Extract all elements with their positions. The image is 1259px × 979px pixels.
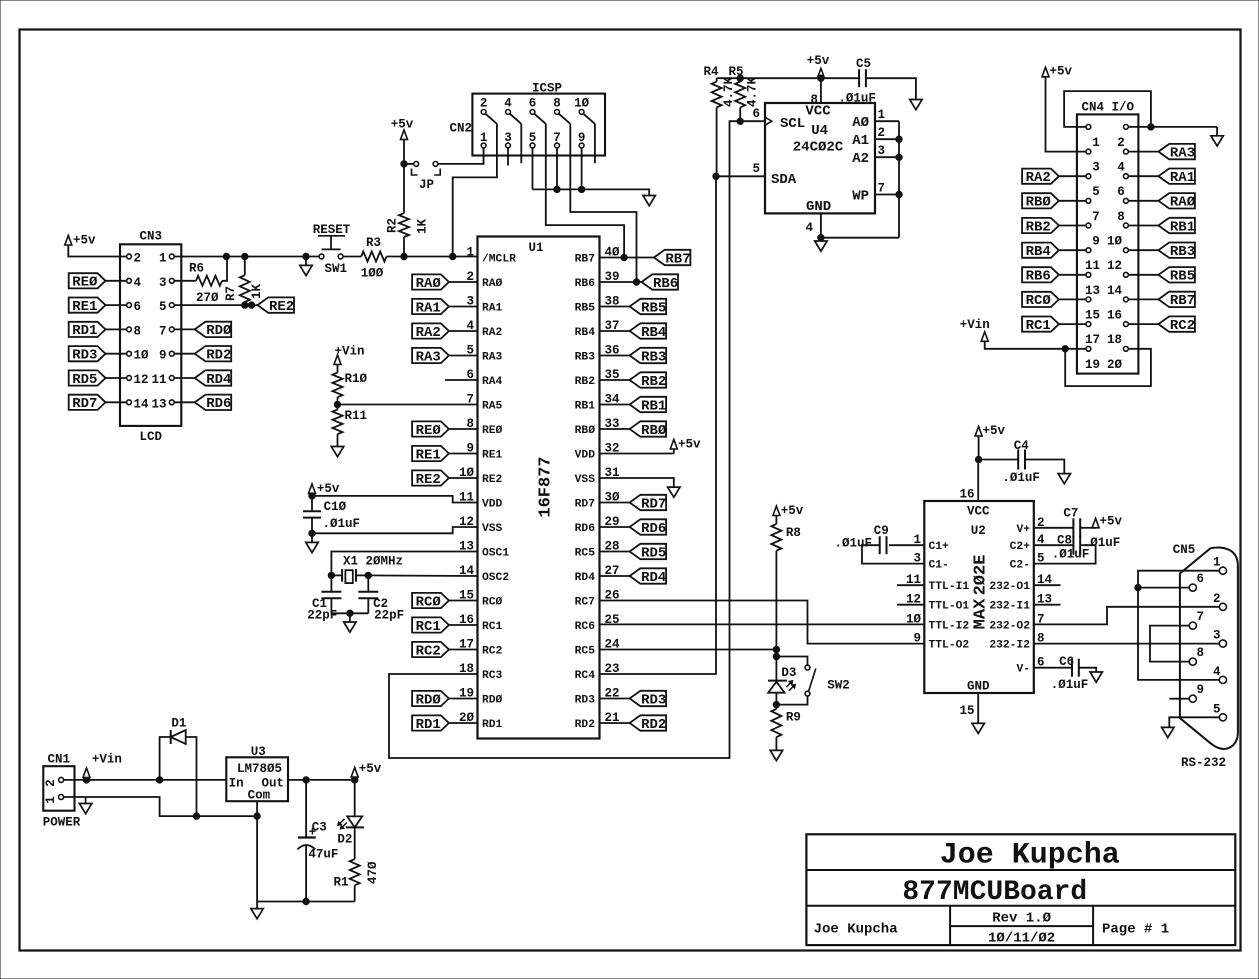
junction VDD bbox=[309, 493, 315, 499]
ground below crystal bbox=[344, 622, 356, 632]
CN1 pin circles and numbers bbox=[59, 777, 64, 782]
CN2 pin circles and numbers bbox=[480, 97, 590, 148]
wire R2 to MCLR wire bbox=[403, 237, 405, 257]
wire R8 down to LED branch bbox=[775, 551, 777, 681]
junction U3 Com bbox=[254, 813, 260, 819]
svg-text:+Vin: +Vin bbox=[92, 753, 122, 767]
net labels into CN4 left bbox=[1022, 169, 1086, 334]
capacitor C7 .01uF on V+ bbox=[1034, 527, 1073, 529]
svg-text:12: 12 bbox=[1107, 259, 1122, 273]
svg-text:LCD: LCD bbox=[139, 430, 162, 444]
svg-text:TTL-I1: TTL-I1 bbox=[929, 581, 970, 593]
wire R9 to ground bbox=[775, 737, 777, 750]
svg-text:RE2: RE2 bbox=[269, 299, 294, 315]
ground right of C4 bbox=[1058, 474, 1070, 484]
svg-text:2: 2 bbox=[1117, 136, 1125, 150]
svg-text:1: 1 bbox=[1213, 556, 1221, 570]
svg-text:15: 15 bbox=[959, 704, 974, 718]
ground below U3 Com bbox=[251, 909, 263, 919]
svg-text:REØ: REØ bbox=[72, 275, 98, 291]
svg-text:V-: V- bbox=[1016, 664, 1030, 676]
switch SW2 branch bbox=[776, 657, 807, 666]
svg-text:27Ø: 27Ø bbox=[196, 291, 219, 305]
capacitor C9 .01uF bbox=[889, 544, 924, 546]
svg-text:R4: R4 bbox=[703, 65, 719, 79]
jumper JP bbox=[404, 163, 414, 165]
CN5 pin circles and numbers bbox=[1189, 556, 1226, 721]
svg-text:.Ø1uF: .Ø1uF bbox=[1051, 678, 1089, 692]
svg-text:GND: GND bbox=[806, 199, 831, 215]
svg-text:MAX: MAX bbox=[972, 598, 991, 629]
svg-text:CN1: CN1 bbox=[48, 753, 71, 767]
wire SCL into U4 pin 6 bbox=[730, 120, 766, 122]
svg-text:RA3: RA3 bbox=[482, 352, 503, 364]
wire U3 Out to +5v bbox=[288, 779, 355, 781]
title block frame bbox=[806, 834, 1235, 945]
connector CN2 ICSP body bbox=[472, 94, 605, 156]
svg-text:2: 2 bbox=[134, 252, 142, 266]
svg-text:JP: JP bbox=[419, 178, 434, 192]
regulator U3 LM7805 body bbox=[226, 757, 288, 801]
svg-text:18: 18 bbox=[1107, 333, 1122, 347]
ground at SW1 left bbox=[305, 257, 307, 266]
svg-text:RC4: RC4 bbox=[575, 670, 596, 682]
svg-text:9: 9 bbox=[578, 131, 586, 145]
svg-text:RD2: RD2 bbox=[206, 348, 231, 364]
svg-text:47uF: 47uF bbox=[308, 848, 338, 862]
junction RC5 wire bbox=[773, 646, 779, 652]
wire U2 232-O2 to CN5 pin 2 bbox=[1034, 607, 1220, 625]
svg-text:Page # 1: Page # 1 bbox=[1102, 922, 1169, 938]
svg-text:1: 1 bbox=[159, 252, 167, 266]
svg-text:14: 14 bbox=[1107, 284, 1123, 298]
U2 pin names and numbers bbox=[906, 516, 1053, 676]
svg-text:VDD: VDD bbox=[575, 450, 596, 462]
svg-text:1: 1 bbox=[44, 796, 58, 804]
capacitor C2 22pF bbox=[367, 575, 369, 592]
svg-text:.Ø1uF: .Ø1uF bbox=[834, 537, 872, 551]
svg-text:232-O1: 232-O1 bbox=[989, 581, 1030, 593]
svg-text:RE1: RE1 bbox=[416, 447, 441, 463]
svg-text:RB3: RB3 bbox=[641, 349, 666, 365]
svg-text:C1-: C1- bbox=[929, 560, 949, 572]
resistor R5 4.7K bbox=[739, 78, 741, 81]
svg-text:2: 2 bbox=[44, 779, 58, 787]
connector CN3 body bbox=[120, 244, 181, 426]
+5v symbol above U2 bbox=[978, 436, 980, 460]
svg-text:VSS: VSS bbox=[482, 523, 503, 535]
ground rail of power section bbox=[257, 901, 355, 903]
svg-text:VCC: VCC bbox=[805, 104, 831, 120]
svg-text:RC5: RC5 bbox=[575, 646, 596, 658]
svg-text:RE2: RE2 bbox=[482, 474, 503, 486]
svg-text:+5v: +5v bbox=[1100, 515, 1123, 529]
+5v symbol to CN3 pin 2 bbox=[68, 245, 126, 257]
svg-text:REØ: REØ bbox=[416, 423, 442, 439]
svg-text:ICSP: ICSP bbox=[532, 82, 562, 96]
svg-text:RC3: RC3 bbox=[482, 670, 503, 682]
svg-text:RC2: RC2 bbox=[482, 646, 503, 658]
wire CN3 pin1 to SW1 bbox=[174, 256, 319, 258]
svg-text:14: 14 bbox=[134, 397, 150, 411]
svg-text:8: 8 bbox=[553, 97, 561, 111]
svg-text:RDØ: RDØ bbox=[206, 323, 232, 339]
wire CN5 pins 1-6-4 tie bbox=[1138, 571, 1219, 680]
wire U3 Com to ground rail bbox=[256, 801, 258, 901]
ground below C10 bbox=[311, 533, 313, 542]
svg-text:X1 2ØMHz: X1 2ØMHz bbox=[343, 555, 403, 569]
svg-text:WP: WP bbox=[852, 189, 869, 205]
svg-text:17: 17 bbox=[1085, 333, 1100, 347]
wire CN3 pin5 to RE2 bbox=[174, 304, 257, 306]
svg-text:2Ø2E: 2Ø2E bbox=[972, 555, 991, 596]
svg-text:RB3: RB3 bbox=[1170, 244, 1195, 260]
svg-text:232-O2: 232-O2 bbox=[989, 620, 1030, 632]
resistor R10 bbox=[333, 373, 343, 398]
svg-text:1: 1 bbox=[1092, 136, 1100, 150]
wire ICSP pin4 stub bbox=[520, 124, 522, 163]
svg-text:7: 7 bbox=[1092, 210, 1100, 224]
svg-text:RA2: RA2 bbox=[1026, 170, 1051, 186]
ground below U4 bbox=[820, 238, 822, 241]
svg-text:RB7: RB7 bbox=[1170, 293, 1195, 309]
svg-text:RB1: RB1 bbox=[575, 401, 596, 413]
resistor R11 bbox=[333, 410, 343, 435]
connector CN4 body bbox=[1077, 114, 1139, 373]
svg-text:1Ø/11/Ø2: 1Ø/11/Ø2 bbox=[988, 931, 1055, 947]
svg-text:RAØ: RAØ bbox=[1170, 195, 1196, 211]
svg-text:7: 7 bbox=[1197, 610, 1205, 624]
wire U1 pin 18 RC3 to SCL loop bbox=[389, 120, 730, 758]
svg-text:Com: Com bbox=[248, 789, 271, 803]
svg-text:RD3: RD3 bbox=[72, 348, 97, 364]
resistor R1 470 bbox=[350, 859, 360, 885]
wire to U1 pin 12 VSS bbox=[312, 527, 478, 533]
junction JP tap bbox=[401, 161, 407, 167]
svg-text:9: 9 bbox=[159, 349, 167, 363]
microcontroller U1 16F877 body bbox=[478, 237, 600, 739]
junction +Vin loop bbox=[1062, 346, 1068, 352]
wire +5v to R8 bbox=[775, 516, 777, 525]
wire U4 pin 4 GND bbox=[821, 213, 899, 237]
crystal X1 20MHz bbox=[331, 574, 342, 576]
svg-text:RCØ: RCØ bbox=[482, 597, 503, 609]
svg-text:8: 8 bbox=[1117, 210, 1125, 224]
svg-text:9: 9 bbox=[1197, 683, 1205, 697]
svg-text:V+: V+ bbox=[1016, 524, 1030, 536]
svg-text:OSC1: OSC1 bbox=[482, 548, 509, 560]
svg-text:POWER: POWER bbox=[43, 816, 81, 830]
svg-text:232-I1: 232-I1 bbox=[989, 601, 1030, 613]
svg-text:LM78Ø5: LM78Ø5 bbox=[237, 762, 282, 776]
svg-text:+5v: +5v bbox=[781, 504, 804, 518]
svg-text:RB6: RB6 bbox=[653, 276, 678, 292]
svg-text:SW2: SW2 bbox=[827, 679, 850, 693]
wire R1 to ground rail bbox=[354, 885, 356, 901]
svg-text:RB4: RB4 bbox=[641, 325, 666, 341]
wire CN1 pin2 to U3 In bbox=[64, 779, 227, 781]
svg-text:C6: C6 bbox=[1059, 655, 1074, 669]
wire +Vin to R10 bbox=[337, 365, 339, 373]
svg-text:1ØØ: 1ØØ bbox=[361, 267, 384, 281]
svg-text:RC6: RC6 bbox=[575, 621, 596, 633]
svg-text:22pF: 22pF bbox=[307, 609, 337, 623]
capacitor C5 .01uF bbox=[858, 69, 860, 87]
svg-text:RC1: RC1 bbox=[482, 621, 503, 633]
svg-text:RD5: RD5 bbox=[72, 372, 97, 388]
junction crystal right bbox=[365, 572, 371, 578]
+5v symbol above U4 bbox=[817, 68, 824, 78]
+5v symbol to CN4 pin 3 bbox=[1042, 67, 1049, 77]
pushbutton SW1 bbox=[319, 254, 324, 259]
svg-text:11: 11 bbox=[151, 373, 166, 387]
net labels RA0-RA3, RE0-RE2, RC0-RC2, RD0, RD1 into U1 bbox=[412, 274, 477, 732]
svg-text:+5v: +5v bbox=[983, 424, 1006, 438]
diode D1 bbox=[160, 737, 171, 780]
ground below R11 bbox=[331, 447, 343, 457]
junction C3 top bbox=[303, 777, 309, 783]
svg-text:6: 6 bbox=[1117, 185, 1125, 199]
+5v symbol above R2 bbox=[401, 130, 408, 140]
svg-text:A2: A2 bbox=[852, 151, 869, 167]
svg-text:A1: A1 bbox=[852, 133, 869, 149]
wire U1 pin 14 OSC2 bbox=[368, 574, 477, 577]
+5v symbol at U1 pin 32 bbox=[600, 453, 674, 455]
wire R5 to SCL bbox=[739, 107, 741, 121]
svg-text:11: 11 bbox=[1085, 259, 1100, 273]
svg-text:.Ø1uF: .Ø1uF bbox=[1002, 471, 1040, 485]
U1 pin 6 stub bbox=[445, 379, 478, 381]
net labels RD0,RD2,RD4,RD6 from CN3 bbox=[174, 322, 232, 412]
resistor R9 bbox=[771, 709, 781, 737]
svg-text:7: 7 bbox=[553, 131, 561, 145]
resistor R3 100 bbox=[361, 252, 386, 262]
svg-text:RB4: RB4 bbox=[1026, 244, 1051, 260]
U2 pin 16 VCC bbox=[977, 460, 979, 502]
wire U2 232-I2 to CN5 pin 3 bbox=[1034, 643, 1220, 645]
svg-text:Joe Kupcha: Joe Kupcha bbox=[814, 922, 899, 938]
svg-text:RD7: RD7 bbox=[641, 496, 666, 512]
svg-text:2: 2 bbox=[878, 126, 886, 140]
svg-text:VCC: VCC bbox=[967, 505, 990, 519]
svg-text:RD6: RD6 bbox=[575, 523, 596, 535]
svg-text:AØ: AØ bbox=[852, 115, 869, 131]
svg-text:VDD: VDD bbox=[482, 499, 503, 511]
svg-text:RA1: RA1 bbox=[416, 300, 441, 316]
junction R7 bottom bbox=[242, 302, 248, 308]
svg-text:RD2: RD2 bbox=[575, 719, 596, 731]
svg-text:4: 4 bbox=[134, 276, 142, 290]
svg-text:RCØ: RCØ bbox=[1026, 293, 1052, 309]
svg-text:RB2: RB2 bbox=[1026, 219, 1051, 235]
wire U1 pin 13 OSC1 bbox=[331, 552, 477, 576]
wire CN5 pins 7-8 tie bbox=[1150, 626, 1189, 662]
+5v rail above U4 bbox=[717, 77, 859, 79]
svg-text:8: 8 bbox=[810, 93, 818, 107]
svg-text:232-I2: 232-I2 bbox=[989, 640, 1030, 652]
svg-text:SCL: SCL bbox=[780, 116, 805, 132]
svg-text:24CØ2C: 24CØ2C bbox=[793, 140, 844, 156]
svg-text:R11: R11 bbox=[345, 409, 368, 423]
CN3 pin circles and numbers bbox=[127, 252, 175, 412]
svg-text:RS-232: RS-232 bbox=[1181, 756, 1226, 770]
svg-text:3: 3 bbox=[1213, 629, 1221, 643]
svg-text:.Ø1uF: .Ø1uF bbox=[323, 517, 361, 531]
svg-text:R5: R5 bbox=[728, 65, 743, 79]
wire oscillator ground rail bbox=[331, 612, 368, 614]
svg-text:6: 6 bbox=[752, 107, 760, 121]
wire U1 pin 23 RC4 to SDA bus bbox=[600, 176, 717, 674]
svg-text:RDØ: RDØ bbox=[482, 695, 503, 707]
wire SDA into U4 pin 5 bbox=[716, 175, 765, 177]
ground at CN4 pin 2 bbox=[1211, 136, 1223, 146]
svg-text:RB7: RB7 bbox=[665, 251, 690, 267]
junction RB6/ICSP bbox=[633, 279, 639, 285]
svg-text:1Ø: 1Ø bbox=[134, 349, 150, 363]
junction +Vin bbox=[83, 777, 89, 783]
svg-text:In: In bbox=[229, 777, 244, 791]
svg-text:19: 19 bbox=[1085, 358, 1100, 372]
svg-text:RESET: RESET bbox=[313, 223, 351, 237]
wire CN1 pin1 ground net bbox=[64, 797, 258, 816]
junction R7 top bbox=[242, 253, 248, 259]
svg-text:1: 1 bbox=[878, 108, 886, 122]
svg-text:C1+: C1+ bbox=[929, 541, 950, 553]
wire U1 pin 25 RC6 to U2 TTL-I2 bbox=[600, 623, 925, 625]
svg-text:RA3: RA3 bbox=[416, 349, 441, 365]
svg-text:4.7K: 4.7K bbox=[746, 76, 760, 107]
svg-text:Joe Kupcha: Joe Kupcha bbox=[940, 839, 1120, 873]
svg-text:5: 5 bbox=[1092, 185, 1100, 199]
svg-text:RE2: RE2 bbox=[416, 472, 441, 488]
wire CN5 pin 5 to ground bbox=[1169, 717, 1219, 727]
svg-text:C8: C8 bbox=[1057, 534, 1072, 548]
svg-text:TTL-I2: TTL-I2 bbox=[929, 620, 970, 632]
junction VCC rail pin8 bbox=[818, 75, 824, 81]
wire +5v to U1 pin 11 VDD bbox=[312, 496, 478, 503]
junction ground stub bbox=[303, 253, 309, 259]
svg-text:1: 1 bbox=[480, 131, 488, 145]
svg-text:R8: R8 bbox=[786, 526, 801, 540]
junction RB7/ICSP bbox=[621, 254, 627, 260]
eeprom U4 24C02C body bbox=[765, 103, 875, 213]
ground below U2 bbox=[972, 723, 984, 733]
svg-text:/MCLR: /MCLR bbox=[482, 254, 516, 266]
svg-text:RBØ: RBØ bbox=[575, 425, 596, 437]
svg-text:RC1: RC1 bbox=[416, 619, 441, 635]
svg-text:16F877: 16F877 bbox=[537, 456, 556, 517]
svg-text:C1Ø: C1Ø bbox=[324, 500, 347, 514]
resistor R8 bbox=[771, 524, 781, 551]
wire divider to U1 pin 7 bbox=[337, 397, 339, 409]
net labels RB5-RB0, RD7-RD4, RD3, RD2 from U1 bbox=[600, 299, 667, 733]
svg-text:9: 9 bbox=[1092, 235, 1100, 249]
svg-text:4: 4 bbox=[1117, 161, 1125, 175]
svg-text:CN3: CN3 bbox=[139, 230, 162, 244]
svg-text:R7: R7 bbox=[224, 286, 238, 301]
svg-text:RD7: RD7 bbox=[575, 499, 596, 511]
svg-text:RA2: RA2 bbox=[482, 327, 503, 339]
svg-text:RB3: RB3 bbox=[575, 352, 596, 364]
svg-text:.Ø1uF: .Ø1uF bbox=[838, 92, 876, 106]
svg-text:VSS: VSS bbox=[575, 474, 596, 486]
wire ICSP pin1 lead bbox=[483, 148, 485, 164]
svg-text:8: 8 bbox=[134, 324, 142, 338]
+5v symbol above C10 bbox=[309, 484, 316, 494]
wire +5v to R2 bbox=[403, 140, 405, 214]
svg-text:6: 6 bbox=[1197, 572, 1205, 586]
svg-text:1Ø: 1Ø bbox=[574, 97, 590, 111]
wire D2 to R1 bbox=[354, 827, 356, 859]
svg-text:+5v: +5v bbox=[1050, 65, 1073, 79]
wire ICSP pin6 to RB7 bbox=[546, 124, 624, 258]
svg-text:RD4: RD4 bbox=[206, 372, 231, 388]
svg-text:+5v: +5v bbox=[678, 438, 701, 452]
svg-text:+5v: +5v bbox=[391, 118, 414, 132]
svg-text:TTL-O2: TTL-O2 bbox=[929, 640, 970, 652]
svg-text:RB5: RB5 bbox=[575, 303, 596, 315]
svg-text:REØ: REØ bbox=[482, 425, 503, 437]
svg-text:RBØ: RBØ bbox=[1026, 195, 1052, 211]
svg-text:1K: 1K bbox=[416, 218, 430, 234]
svg-text:RAØ: RAØ bbox=[416, 276, 442, 292]
svg-text:1Ø: 1Ø bbox=[906, 612, 922, 626]
CN2 top-row pin leads bbox=[485, 114, 595, 124]
wire CN4 pins 1-2 ground loop bbox=[1064, 91, 1151, 127]
net labels RE0,RE1,RD1,RD3,RD5,RD7 into CN3 bbox=[69, 273, 127, 412]
svg-text:U2: U2 bbox=[971, 524, 986, 538]
svg-text:9: 9 bbox=[913, 632, 921, 646]
svg-text:C4: C4 bbox=[1014, 439, 1030, 453]
svg-text:7: 7 bbox=[159, 324, 167, 338]
svg-text:5: 5 bbox=[1213, 702, 1221, 716]
rs232 driver U2 MAX202E body bbox=[924, 501, 1034, 693]
wire C5 to ground bbox=[866, 78, 916, 99]
svg-text:C2-: C2- bbox=[1010, 560, 1030, 572]
CN4 pin circles and numbers bbox=[1085, 125, 1128, 372]
svg-text:TTL-O1: TTL-O1 bbox=[929, 601, 970, 613]
junction R4/SDA bbox=[713, 173, 719, 179]
svg-text:RA1: RA1 bbox=[482, 303, 503, 315]
wire LED to junction bbox=[775, 693, 777, 705]
svg-text:3: 3 bbox=[1092, 161, 1100, 175]
U2 232-O1 232-I1 stubs bbox=[1034, 584, 1061, 586]
wire U4 address pins A0 A1 A2 WP to bus bbox=[875, 120, 899, 122]
svg-text:RB6: RB6 bbox=[575, 278, 596, 290]
svg-text:+Vin: +Vin bbox=[335, 345, 365, 359]
svg-text:4: 4 bbox=[805, 221, 813, 235]
junction GND pin 4 bbox=[818, 235, 824, 241]
svg-text:RC2: RC2 bbox=[416, 643, 441, 659]
net label RB7 from U1 pin 40 bbox=[600, 257, 654, 259]
svg-text:RE1: RE1 bbox=[72, 299, 97, 315]
svg-text:5: 5 bbox=[752, 162, 760, 176]
svg-text:SW1: SW1 bbox=[325, 262, 348, 276]
resistor R4 4.7K bbox=[716, 78, 718, 81]
svg-text:13: 13 bbox=[151, 397, 166, 411]
svg-text:RA2: RA2 bbox=[416, 325, 441, 341]
+5v symbol above R8 bbox=[773, 506, 780, 516]
svg-text:RD3: RD3 bbox=[641, 692, 666, 708]
svg-text:RD3: RD3 bbox=[575, 695, 596, 707]
svg-text:CN2: CN2 bbox=[449, 122, 472, 136]
svg-text:47Ø: 47Ø bbox=[366, 861, 380, 884]
+5v symbol at regulator output bbox=[354, 777, 356, 780]
junction below LED bbox=[773, 701, 779, 707]
connector CN1 body bbox=[43, 766, 74, 811]
svg-text:RB1: RB1 bbox=[641, 398, 666, 414]
+Vin symbol at CN1 bbox=[86, 778, 88, 780]
